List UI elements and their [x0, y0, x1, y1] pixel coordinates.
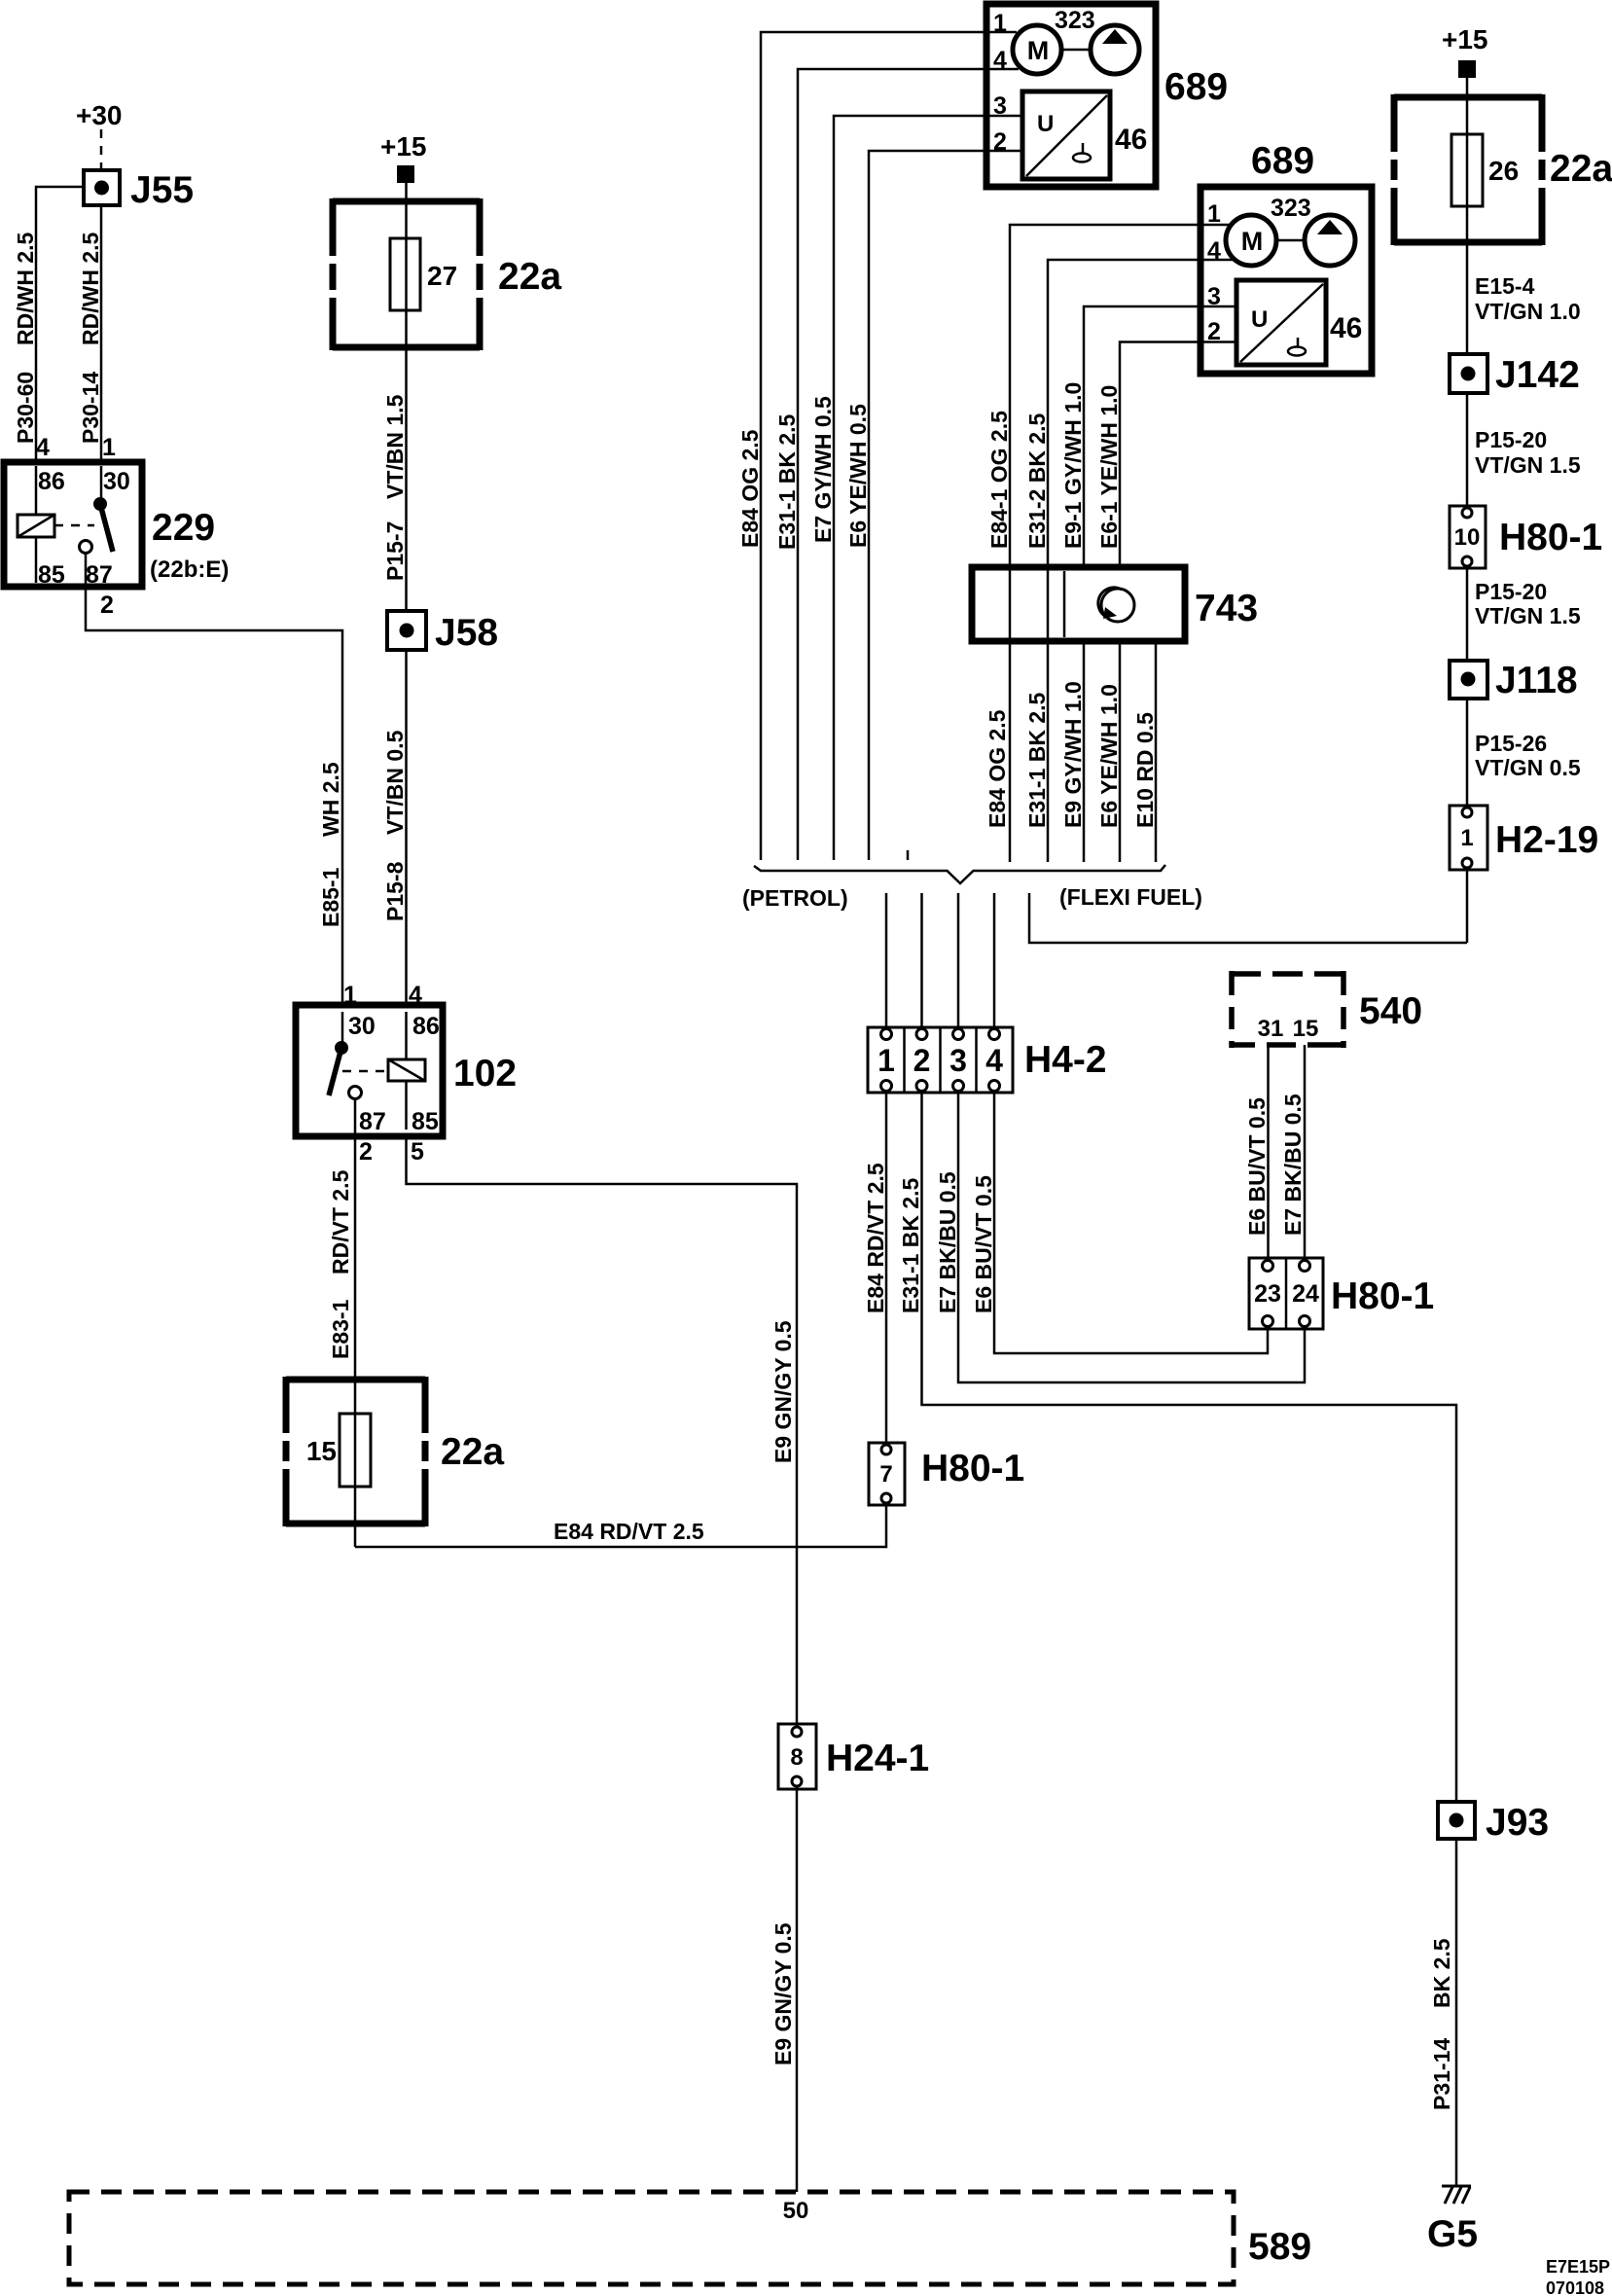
wire 102 pin2 E83-1 RD/VT 2.5 [354, 1099, 357, 1547]
svg-text:RD/WH 2.5: RD/WH 2.5 [13, 233, 38, 346]
svg-text:+15: +15 [380, 131, 427, 161]
svg-text:102: 102 [453, 1053, 517, 1094]
wire E7 GY/WH 0.5 (petrol pin3) [834, 116, 1022, 860]
fuel pump/filter unit 743 [972, 567, 1185, 641]
wire P30-60 RD/WH 2.5 [36, 187, 84, 459]
svg-text:15: 15 [306, 1436, 337, 1466]
fuse box 22a (fuse 27) [333, 198, 480, 350]
wire E6 YE/WH 0.5 (petrol pin2) [869, 151, 1022, 860]
svg-text:VT/BN 1.5: VT/BN 1.5 [382, 394, 408, 499]
engine control module 589 (dashed) [69, 2192, 1234, 2284]
svg-text:E31-2 BK 2.5: E31-2 BK 2.5 [1024, 413, 1050, 549]
svg-text:27: 27 [427, 261, 457, 291]
relay 102 coil [405, 1012, 408, 1130]
svg-text:2: 2 [359, 1138, 373, 1166]
svg-text:VT/BN 0.5: VT/BN 0.5 [382, 730, 408, 835]
wire J93 to ground [1455, 1839, 1458, 2186]
svg-text:J142: J142 [1495, 354, 1580, 396]
svg-text:E84 OG 2.5: E84 OG 2.5 [985, 709, 1010, 828]
svg-text:E15-4: E15-4 [1475, 273, 1535, 299]
wire E84 RD/VT 2.5 (H4-2 pin1 to H80-1 pin7) [885, 1093, 888, 1443]
svg-text:743: 743 [1195, 588, 1258, 629]
svg-text:P15-20: P15-20 [1475, 579, 1547, 604]
wire E9-1 GY/WH 1.0 (flexi pin3) [1084, 306, 1236, 567]
svg-text:323: 323 [1271, 195, 1311, 222]
svg-text:E6 BU/VT 0.5: E6 BU/VT 0.5 [1244, 1097, 1270, 1236]
svg-text:BK 2.5: BK 2.5 [1429, 1938, 1454, 2008]
svg-text:(FLEXI FUEL): (FLEXI FUEL) [1059, 884, 1202, 910]
svg-text:15: 15 [1293, 1016, 1319, 1042]
svg-text:E9 GN/GY 0.5: E9 GN/GY 0.5 [770, 1320, 796, 1463]
fuse 26 [1451, 134, 1483, 206]
wire E31-1 BK 2.5 (petrol pin4) [798, 69, 1019, 860]
svg-text:323: 323 [1055, 7, 1095, 34]
svg-text:P15-20: P15-20 [1475, 427, 1547, 452]
svg-text:E31-1 BK 2.5: E31-1 BK 2.5 [898, 1177, 923, 1313]
wire H80-1 to J118 [1466, 568, 1469, 661]
svg-text:24: 24 [1292, 1280, 1319, 1308]
svg-text:229: 229 [152, 507, 215, 549]
svg-text:E6-1 YE/WH 1.0: E6-1 YE/WH 1.0 [1096, 385, 1122, 549]
svg-text:50: 50 [783, 2198, 809, 2224]
svg-text:RD/WH 2.5: RD/WH 2.5 [78, 233, 103, 346]
wire +15 to fuse 27 to J58 [405, 183, 408, 611]
svg-text:2: 2 [913, 1043, 931, 1078]
connector J58 [387, 611, 426, 650]
svg-text:J93: J93 [1486, 1802, 1549, 1844]
svg-text:23: 23 [1254, 1280, 1281, 1308]
fuse box 22a (fuse 15) [286, 1377, 425, 1526]
wire E6 BU/VT 0.5 (540 pin31) [1267, 1045, 1270, 1258]
svg-text:2: 2 [100, 592, 114, 619]
svg-text:22a: 22a [1550, 148, 1612, 190]
svg-text:(22b:E): (22b:E) [150, 556, 229, 583]
svg-text:87: 87 [359, 1108, 386, 1135]
svg-text:+15: +15 [1442, 24, 1488, 54]
svg-text:3: 3 [949, 1043, 967, 1078]
svg-text:E31-1 BK 2.5: E31-1 BK 2.5 [1024, 692, 1050, 828]
fuse box 22a (fuse 26) [1394, 94, 1542, 245]
wire E84-1 OG 2.5 (flexi pin1) [1010, 225, 1232, 567]
svg-text:1: 1 [878, 1043, 895, 1078]
relay 229 [4, 462, 142, 587]
svg-text:1: 1 [343, 982, 357, 1009]
relay 102 [296, 1005, 443, 1136]
svg-text:P30-60: P30-60 [13, 372, 38, 444]
wire +15 down right column [1466, 78, 1469, 354]
wire H2-19 down to flexi bus link [1466, 870, 1469, 943]
wire 102 pin5 to H24-1 [407, 1136, 798, 1724]
svg-text:WH 2.5: WH 2.5 [318, 762, 343, 837]
svg-text:U: U [1037, 111, 1054, 137]
wire E7 BK/BU 0.5 (H4-2 pin3 to H80-1 pin24) [958, 1093, 1305, 1382]
svg-text:1: 1 [1460, 825, 1473, 851]
svg-text:H80-1: H80-1 [1499, 517, 1602, 558]
svg-text:VT/GN 1.0: VT/GN 1.0 [1475, 299, 1581, 324]
svg-text:P30-14: P30-14 [78, 372, 103, 444]
fuel pump unit 689 (flexi fuel) [1200, 187, 1372, 374]
relay 102 switch [341, 1012, 344, 1048]
wire 229 pin2 to relay 102 pin1 [86, 554, 342, 1005]
wire bus to H2-19 link [1029, 893, 1467, 943]
svg-text:P15-7: P15-7 [382, 521, 408, 581]
svg-text:46: 46 [1115, 124, 1147, 156]
svg-text:22a: 22a [498, 256, 561, 298]
svg-text:46: 46 [1330, 312, 1362, 344]
wire P30-14 RD/WH 2.5 [100, 205, 103, 459]
svg-text:689: 689 [1251, 140, 1314, 182]
svg-text:J58: J58 [435, 612, 498, 654]
connector H80-1 pins 23/24 [1249, 1258, 1323, 1329]
svg-text:H4-2: H4-2 [1024, 1039, 1107, 1081]
pump symbol 689 flexi [1305, 215, 1355, 266]
svg-text:E84-1 OG 2.5: E84-1 OG 2.5 [986, 411, 1012, 549]
svg-text:RD/VT 2.5: RD/VT 2.5 [328, 1169, 353, 1274]
svg-text:G5: G5 [1427, 2213, 1478, 2255]
svg-text:P15-26: P15-26 [1475, 731, 1547, 756]
relay 229 switch [100, 466, 103, 504]
svg-text:E31-1 BK 2.5: E31-1 BK 2.5 [774, 413, 800, 550]
svg-text:H80-1: H80-1 [1331, 1275, 1434, 1317]
svg-text:E84 RD/VT 2.5: E84 RD/VT 2.5 [554, 1519, 704, 1544]
wire P15-8 VT/BN 0.5 [405, 650, 408, 1005]
svg-text:E7 BK/BU 0.5: E7 BK/BU 0.5 [1280, 1094, 1306, 1236]
svg-text:85: 85 [412, 1108, 439, 1135]
connector H4-2 [868, 1027, 1013, 1093]
svg-text:P15-8: P15-8 [382, 861, 408, 921]
svg-text:070108: 070108 [1546, 2278, 1604, 2296]
svg-text:7: 7 [879, 1461, 892, 1488]
svg-text:J55: J55 [130, 169, 194, 211]
svg-text:E9 GY/WH 1.0: E9 GY/WH 1.0 [1060, 681, 1086, 828]
svg-text:26: 26 [1488, 156, 1519, 186]
wire E31-1 BK 2.5 (H4-2 pin2 to J93) [922, 1093, 1457, 1802]
fuel pump unit 689 (petrol) [986, 4, 1156, 187]
relay 229 coil [35, 466, 38, 583]
connector J55 [84, 170, 120, 205]
svg-text:E6 YE/WH 0.5: E6 YE/WH 0.5 [845, 404, 871, 548]
svg-text:VT/GN 1.5: VT/GN 1.5 [1475, 603, 1581, 628]
connector J142 [1450, 354, 1487, 393]
svg-text:1: 1 [102, 434, 116, 461]
svg-text:85: 85 [38, 561, 65, 589]
control module 540 (dashed) [1232, 971, 1343, 1048]
ground G5 [1442, 2185, 1471, 2188]
alternative-harness bus with V merge [754, 865, 1165, 883]
wire E84 RD/VT 2.5 horizontal [355, 1504, 886, 1547]
wire E6-1 YE/WH 1.0 (flexi pin2) [1120, 342, 1236, 568]
svg-text:E7 GY/WH 0.5: E7 GY/WH 0.5 [810, 396, 836, 543]
svg-text:H2-19: H2-19 [1495, 819, 1598, 861]
svg-text:E9-1 GY/WH 1.0: E9-1 GY/WH 1.0 [1060, 382, 1086, 549]
wire E84 OG 2.5 (petrol pin1) [761, 32, 1017, 860]
connector H80-1 pin 7 [869, 1443, 905, 1505]
svg-text:5: 5 [411, 1138, 424, 1166]
connector J93 [1438, 1802, 1475, 1839]
fuel level sensor U 689 flexi [1236, 280, 1326, 365]
svg-text:VT/GN 1.5: VT/GN 1.5 [1475, 452, 1581, 478]
svg-text:31: 31 [1258, 1016, 1284, 1042]
svg-text:VT/GN 0.5: VT/GN 0.5 [1475, 755, 1581, 780]
svg-text:E84 OG 2.5: E84 OG 2.5 [737, 429, 763, 548]
fuse 15 [340, 1414, 371, 1487]
svg-text:E7 BK/BU 0.5: E7 BK/BU 0.5 [935, 1171, 960, 1313]
svg-text:E7E15P: E7E15P [1546, 2257, 1610, 2277]
svg-text:8: 8 [790, 1744, 803, 1771]
svg-text:M: M [1027, 36, 1050, 65]
svg-text:4: 4 [36, 434, 50, 461]
svg-text:86: 86 [412, 1013, 440, 1040]
wire E31-2 BK 2.5 (flexi pin4) [1048, 260, 1236, 567]
svg-text:J118: J118 [1495, 660, 1578, 701]
svg-text:E84 RD/VT 2.5: E84 RD/VT 2.5 [863, 1163, 888, 1313]
wire J142 to H80-1 pin10 [1466, 393, 1469, 506]
svg-text:22a: 22a [441, 1431, 504, 1473]
svg-text:30: 30 [348, 1013, 376, 1040]
svg-text:E85-1: E85-1 [318, 867, 343, 927]
svg-text:U: U [1251, 306, 1268, 333]
svg-text:540: 540 [1359, 990, 1422, 1032]
svg-text:4: 4 [985, 1043, 1003, 1078]
svg-text:E6 BU/VT 0.5: E6 BU/VT 0.5 [971, 1175, 996, 1313]
svg-text:689: 689 [1164, 66, 1228, 108]
pump symbol 689 petrol [1091, 25, 1139, 74]
connector J118 [1450, 661, 1487, 699]
stub above bus [907, 850, 910, 860]
svg-text:H24-1: H24-1 [826, 1738, 929, 1779]
svg-text:86: 86 [38, 468, 65, 495]
svg-text:E6 YE/WH 1.0: E6 YE/WH 1.0 [1096, 684, 1122, 828]
svg-text:E9 GN/GY 0.5: E9 GN/GY 0.5 [770, 1922, 796, 2065]
wires bus to H4-2 [886, 893, 994, 1027]
connector H24-1 pin 8 [778, 1724, 816, 1789]
svg-text:(PETROL): (PETROL) [742, 885, 848, 911]
motor M 689 flexi [1226, 215, 1276, 266]
wire H24-1 to 589 pin 50 [796, 1789, 799, 2192]
motor M 689 petrol [1013, 25, 1061, 74]
connector H80-1 pin 10 [1450, 506, 1486, 568]
svg-text:H80-1: H80-1 [921, 1448, 1024, 1489]
svg-text:E10 RD 0.5: E10 RD 0.5 [1132, 712, 1158, 828]
svg-text:E83-1: E83-1 [328, 1299, 353, 1359]
svg-text:M: M [1241, 227, 1264, 256]
svg-text:10: 10 [1454, 524, 1481, 551]
wire dashed +30 feed [100, 129, 103, 170]
wires through 743 down to bus [1010, 567, 1156, 862]
wire E6 BU/VT 0.5 (H4-2 pin4 to H80-1 pin23) [994, 1093, 1268, 1353]
svg-text:87: 87 [86, 561, 113, 589]
svg-text:30: 30 [103, 468, 130, 495]
svg-text:4: 4 [409, 982, 422, 1009]
fuel level sensor U 689 petrol [1022, 91, 1110, 179]
wire E7 BK/BU 0.5 (540 pin15) [1304, 1045, 1307, 1258]
svg-text:+30: +30 [76, 100, 123, 130]
fuse 27 [390, 238, 420, 310]
wire J118 to H2-19 [1466, 699, 1469, 806]
svg-text:P31-14: P31-14 [1429, 2038, 1454, 2110]
connector H2-19 pin 1 [1450, 806, 1487, 870]
svg-text:589: 589 [1248, 2226, 1311, 2268]
